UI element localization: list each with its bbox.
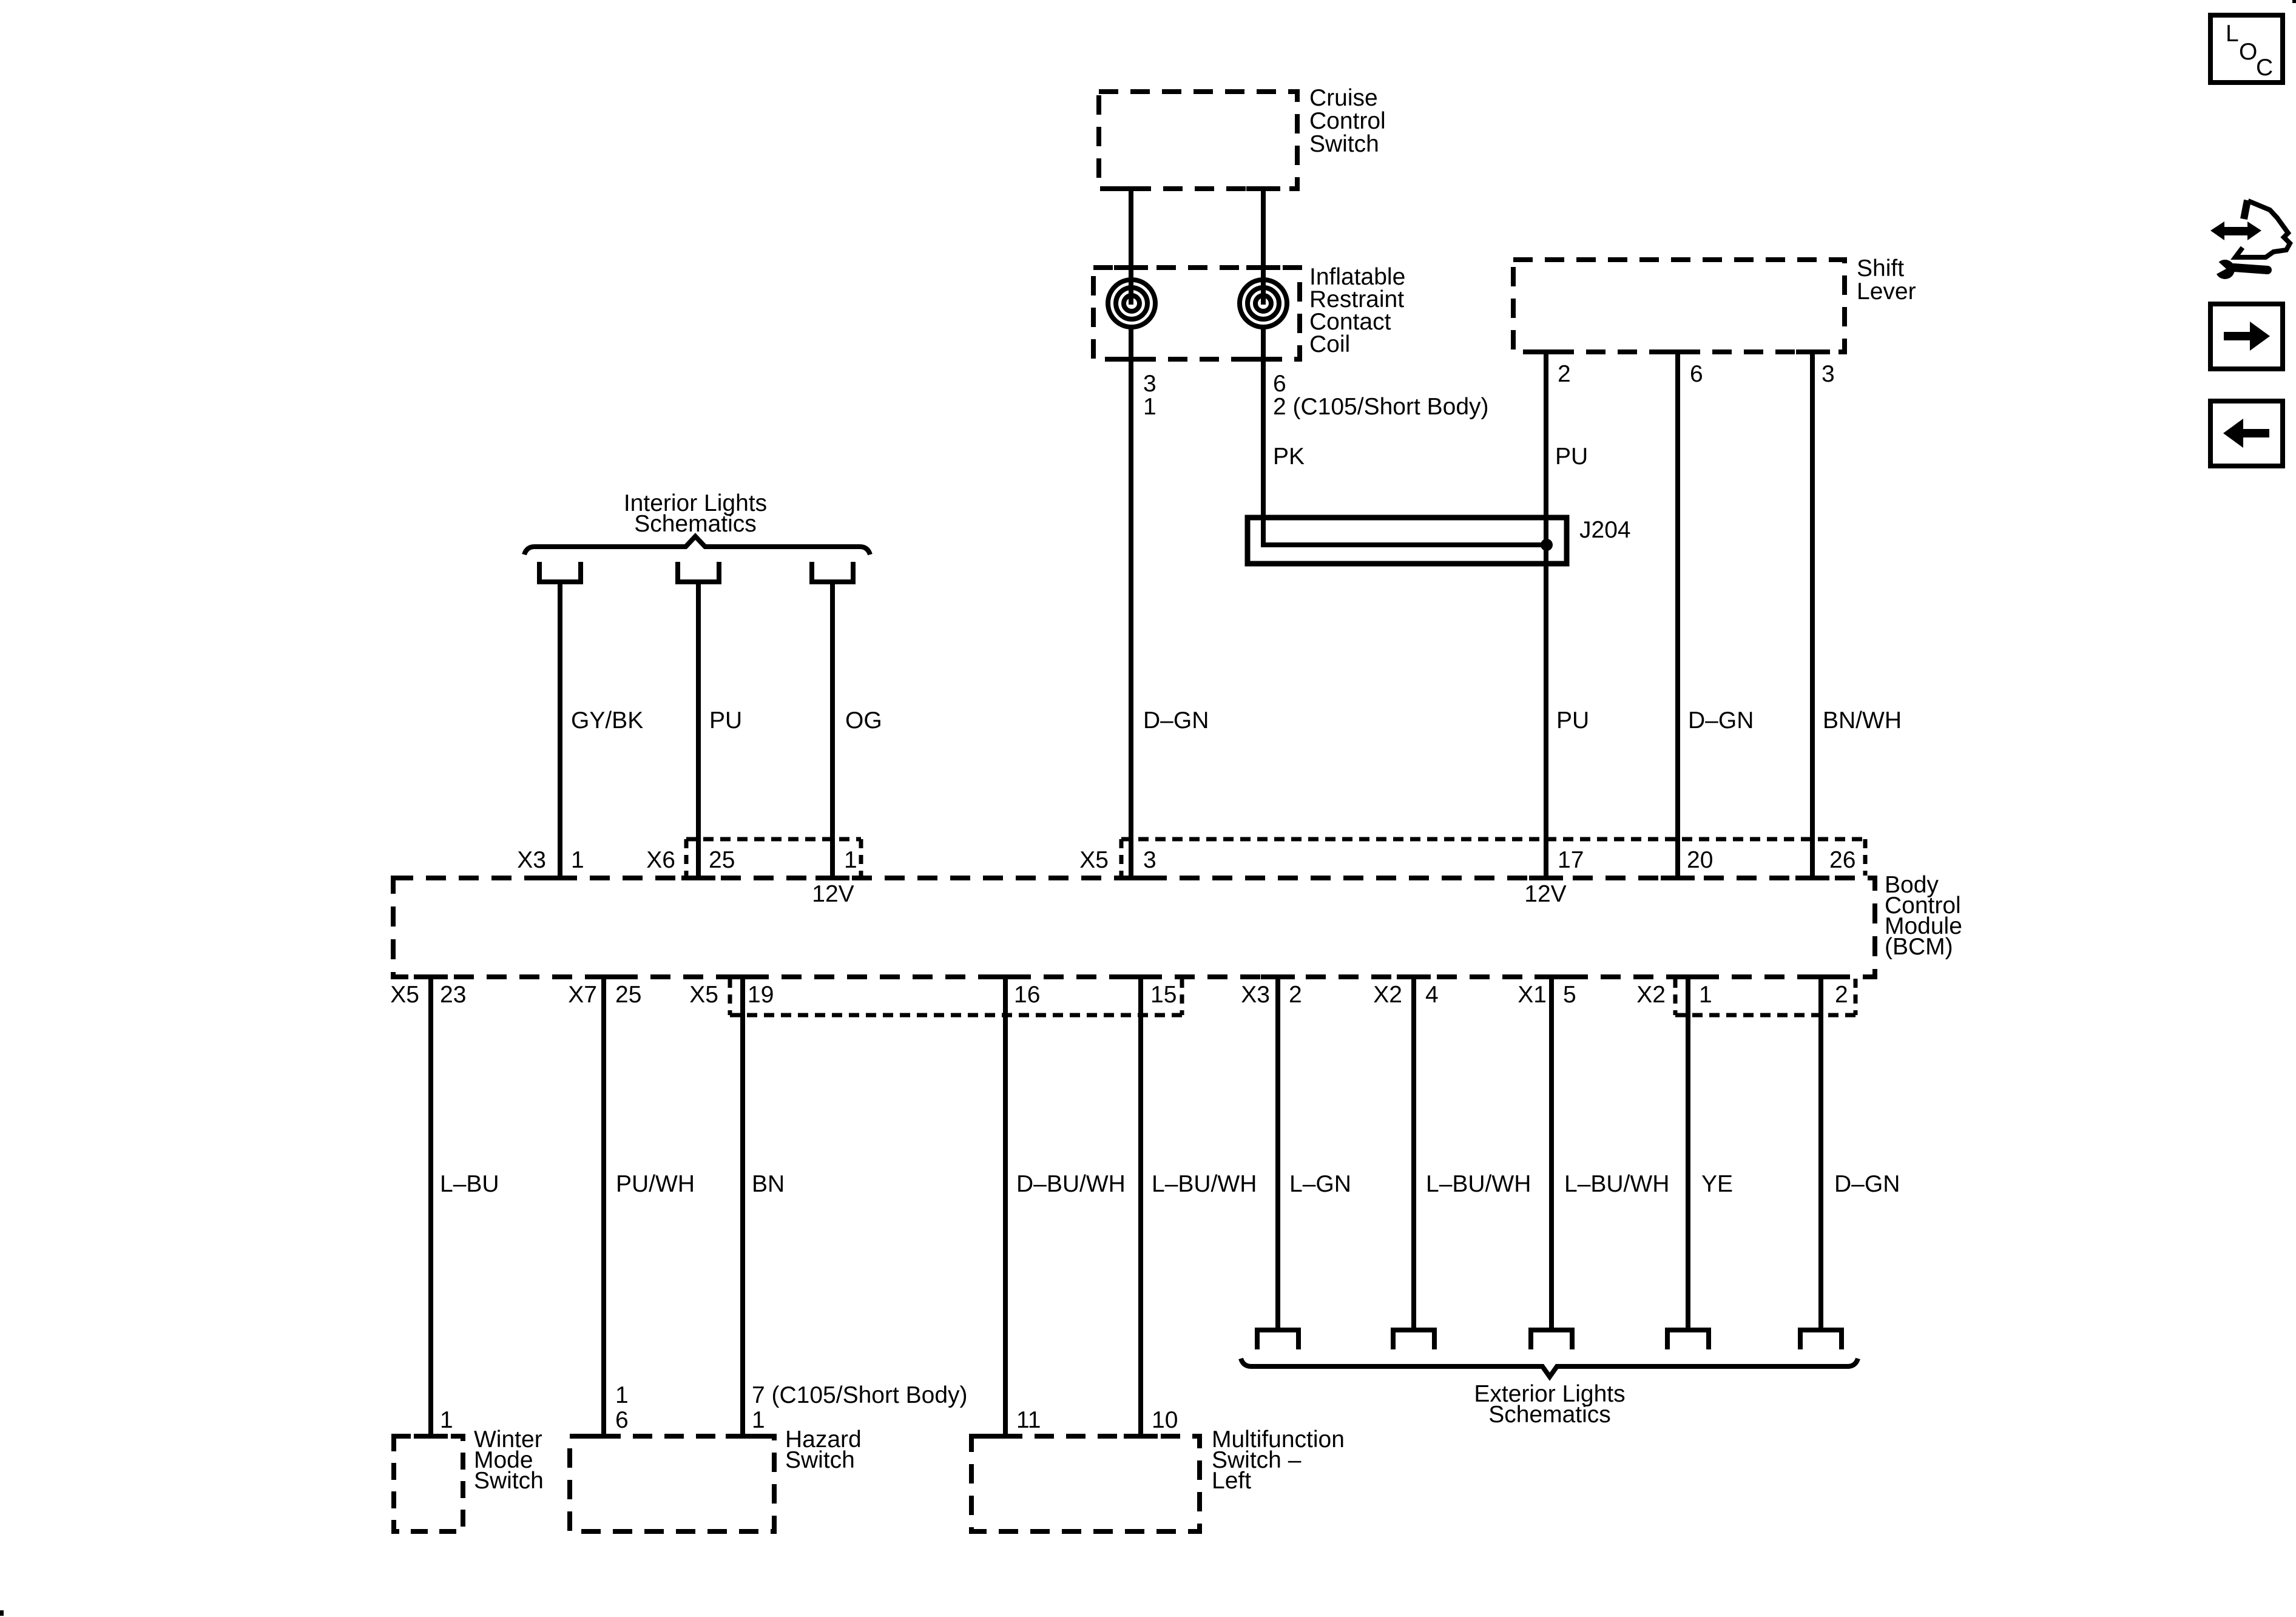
coil symbol left (clockspring) — [1108, 280, 1155, 327]
svg-text:L–BU/WH: L–BU/WH — [1152, 1171, 1257, 1197]
svg-text:BN: BN — [752, 1171, 785, 1197]
svg-text:1: 1 — [1143, 394, 1156, 420]
svg-text:PK: PK — [1273, 444, 1305, 470]
wire: BN from BCM X5-19 to Hazard Switch — [740, 977, 745, 1436]
svg-text:X5: X5 — [390, 982, 419, 1008]
svg-text:17: 17 — [1558, 847, 1584, 873]
svg-text:6: 6 — [615, 1407, 629, 1433]
service info icon (double arrow, panel outline, wrench) — [2209, 200, 2290, 279]
svg-text:OG: OG — [845, 707, 882, 734]
page mark bottom-left — [0, 1610, 4, 1616]
pin group box X5 (pins 3,17,20,26) — [1121, 837, 1865, 842]
component box: Winter Mode Switch — [394, 1426, 544, 1531]
off-page connector (exterior lights wire) — [1800, 1330, 1842, 1349]
component box: Hazard Switch — [570, 1426, 862, 1531]
svg-text:1: 1 — [844, 847, 857, 873]
svg-text:4: 4 — [1425, 982, 1439, 1008]
svg-text:D–GN: D–GN — [1688, 707, 1754, 734]
svg-text:12V: 12V — [1524, 881, 1566, 907]
svg-text:X2: X2 — [1373, 982, 1402, 1008]
splice J204 — [1248, 517, 1631, 564]
svg-text:Schematics: Schematics — [1488, 1402, 1611, 1428]
svg-text:PU: PU — [1556, 707, 1589, 734]
wire: cruise pin 3 down to coil (left) — [1129, 189, 1133, 305]
svg-text:20: 20 — [1687, 847, 1713, 873]
off-page connector (exterior lights wire) — [1257, 1330, 1298, 1349]
wire: D-GN from shift pin 6 to BCM 20 — [1675, 352, 1680, 878]
back arrow icon box — [2210, 401, 2283, 466]
svg-text:Switch: Switch — [474, 1468, 544, 1494]
LOC locator icon box — [2210, 15, 2283, 83]
page mark top-right — [2292, 0, 2296, 3]
svg-text:23: 23 — [440, 982, 466, 1008]
wire: L–BU/WH from BCM to exterior lights — [1411, 977, 1416, 1330]
svg-text:25: 25 — [615, 982, 641, 1008]
wire: PU/WH from BCM X7-25 to Hazard Switch — [601, 977, 606, 1436]
pin group box X5 (pins 19,16,15) — [730, 1013, 1182, 1018]
pin ticks on BCM top edge — [543, 876, 577, 880]
off-page connector (interior lights wire OG) — [812, 562, 853, 582]
svg-text:L–GN: L–GN — [1289, 1171, 1351, 1197]
svg-text:X2: X2 — [1636, 982, 1666, 1008]
wire: L-BU/WH from BCM 15 to Multifunction Switch — [1138, 977, 1143, 1436]
svg-text:Coil: Coil — [1309, 331, 1350, 357]
pin ticks on BCM bottom edge — [414, 974, 448, 979]
svg-text:PU: PU — [1555, 444, 1588, 470]
svg-text:26: 26 — [1829, 847, 1855, 873]
svg-text:19: 19 — [748, 982, 774, 1008]
svg-text:2: 2 — [1289, 982, 1302, 1008]
svg-text:12V: 12V — [812, 881, 854, 907]
svg-text:11: 11 — [1016, 1407, 1041, 1433]
svg-text:X7: X7 — [568, 982, 597, 1008]
svg-text:PU/WH: PU/WH — [616, 1171, 695, 1197]
forward arrow icon box — [2210, 304, 2283, 369]
svg-text:X5: X5 — [689, 982, 718, 1008]
svg-text:J204: J204 — [1579, 517, 1631, 543]
svg-text:6: 6 — [1273, 371, 1286, 397]
off-page connector (interior lights wire PU) — [678, 562, 719, 582]
svg-text:Shift: Shift — [1857, 255, 1904, 282]
svg-text:X3: X3 — [517, 847, 546, 873]
svg-text:2: 2 — [1835, 982, 1848, 1008]
svg-text:X6: X6 — [646, 847, 675, 873]
svg-text:1: 1 — [1699, 982, 1712, 1008]
wire: cruise pin 6 down to coil (right) — [1261, 189, 1266, 305]
svg-text:Left: Left — [1212, 1468, 1251, 1494]
wire: GY/BK to BCM — [558, 582, 562, 878]
svg-text:25: 25 — [709, 847, 735, 873]
wire: D-BU/WH from BCM 16 to Multifunction Switch — [1003, 977, 1008, 1436]
svg-text:1: 1 — [752, 1407, 765, 1433]
off-page connector (exterior lights wire) — [1393, 1330, 1434, 1349]
svg-text:BN/WH: BN/WH — [1823, 707, 1902, 734]
coil symbol right (clockspring) — [1240, 280, 1287, 327]
svg-text:5: 5 — [1563, 982, 1576, 1008]
brace (interior lights) — [524, 536, 870, 555]
svg-text:PU: PU — [709, 707, 742, 734]
svg-text:Cruise: Cruise — [1309, 85, 1378, 111]
svg-text:GY/BK: GY/BK — [571, 707, 643, 734]
off-page connector (interior lights wire GY/BK) — [539, 562, 581, 582]
wire: L–BU/WH from BCM to exterior lights — [1549, 977, 1554, 1330]
component box: Inflatable Restraint Contact Coil — [1093, 264, 1405, 359]
svg-text:L–BU/WH: L–BU/WH — [1564, 1171, 1669, 1197]
svg-text:1: 1 — [615, 1382, 629, 1408]
wire: OG to BCM — [830, 582, 835, 878]
svg-text:O: O — [2239, 39, 2257, 65]
svg-text:X5: X5 — [1079, 847, 1109, 873]
pin group box X2 (pins 1,2) — [1675, 1013, 1855, 1018]
wire: D-GN from coil left to BCM X5-3 — [1129, 328, 1133, 878]
svg-text:X1: X1 — [1518, 982, 1547, 1008]
svg-text:15: 15 — [1150, 982, 1177, 1008]
svg-text:Control: Control — [1309, 108, 1386, 134]
component box: Multifunction Switch - Left — [971, 1426, 1345, 1531]
off-page connector (exterior lights wire) — [1531, 1330, 1572, 1349]
svg-text:D–GN: D–GN — [1143, 707, 1209, 734]
svg-text:C: C — [2256, 55, 2273, 81]
pin group box X6 (pins 25, 1) — [686, 837, 861, 842]
off-page connector (exterior lights wire) — [1667, 1330, 1709, 1349]
wire: PK from coil right to splice J204 — [1263, 328, 1547, 545]
svg-text:Lever: Lever — [1857, 279, 1916, 305]
component box: Body Control Module (BCM) — [393, 878, 1875, 977]
wire: L-BU from BCM X5-23 to Winter Mode Switch — [428, 977, 433, 1436]
brace (exterior lights) — [1241, 1359, 1858, 1377]
svg-text:X3: X3 — [1241, 982, 1270, 1008]
wire: L–GN from BCM to exterior lights — [1275, 977, 1280, 1330]
svg-text:16: 16 — [1014, 982, 1040, 1008]
svg-text:3: 3 — [1822, 361, 1835, 387]
svg-text:Switch: Switch — [1309, 131, 1379, 157]
svg-text:Switch: Switch — [785, 1447, 855, 1473]
wire: BN/WH from shift pin 3 to BCM 26 — [1810, 352, 1815, 878]
svg-text:YE: YE — [1701, 1171, 1733, 1197]
svg-text:7 (C105/Short Body): 7 (C105/Short Body) — [752, 1382, 968, 1408]
svg-text:(BCM): (BCM) — [1885, 934, 1953, 960]
svg-text:10: 10 — [1152, 1407, 1178, 1433]
svg-text:L: L — [2226, 21, 2239, 47]
svg-text:L–BU: L–BU — [440, 1171, 499, 1197]
svg-text:1: 1 — [571, 847, 584, 873]
svg-text:D–BU/WH: D–BU/WH — [1016, 1171, 1126, 1197]
wire: PU to BCM — [696, 582, 701, 878]
svg-text:2 (C105/Short Body): 2 (C105/Short Body) — [1273, 394, 1489, 420]
wire: D–GN from BCM to exterior lights — [1818, 977, 1823, 1330]
svg-text:1: 1 — [440, 1407, 453, 1433]
svg-text:L–BU/WH: L–BU/WH — [1426, 1171, 1531, 1197]
svg-text:2: 2 — [1558, 361, 1571, 387]
wire: PU from shift pin 2 through J204 to BCM 17 — [1544, 352, 1548, 878]
svg-text:3: 3 — [1143, 371, 1156, 397]
svg-text:6: 6 — [1690, 361, 1703, 387]
connector box: Cruise Control Switch — [1099, 85, 1386, 189]
wire: YE from BCM to exterior lights — [1686, 977, 1690, 1330]
connector box: Shift Lever — [1513, 255, 1916, 352]
svg-text:3: 3 — [1143, 847, 1156, 873]
svg-text:D–GN: D–GN — [1834, 1171, 1900, 1197]
